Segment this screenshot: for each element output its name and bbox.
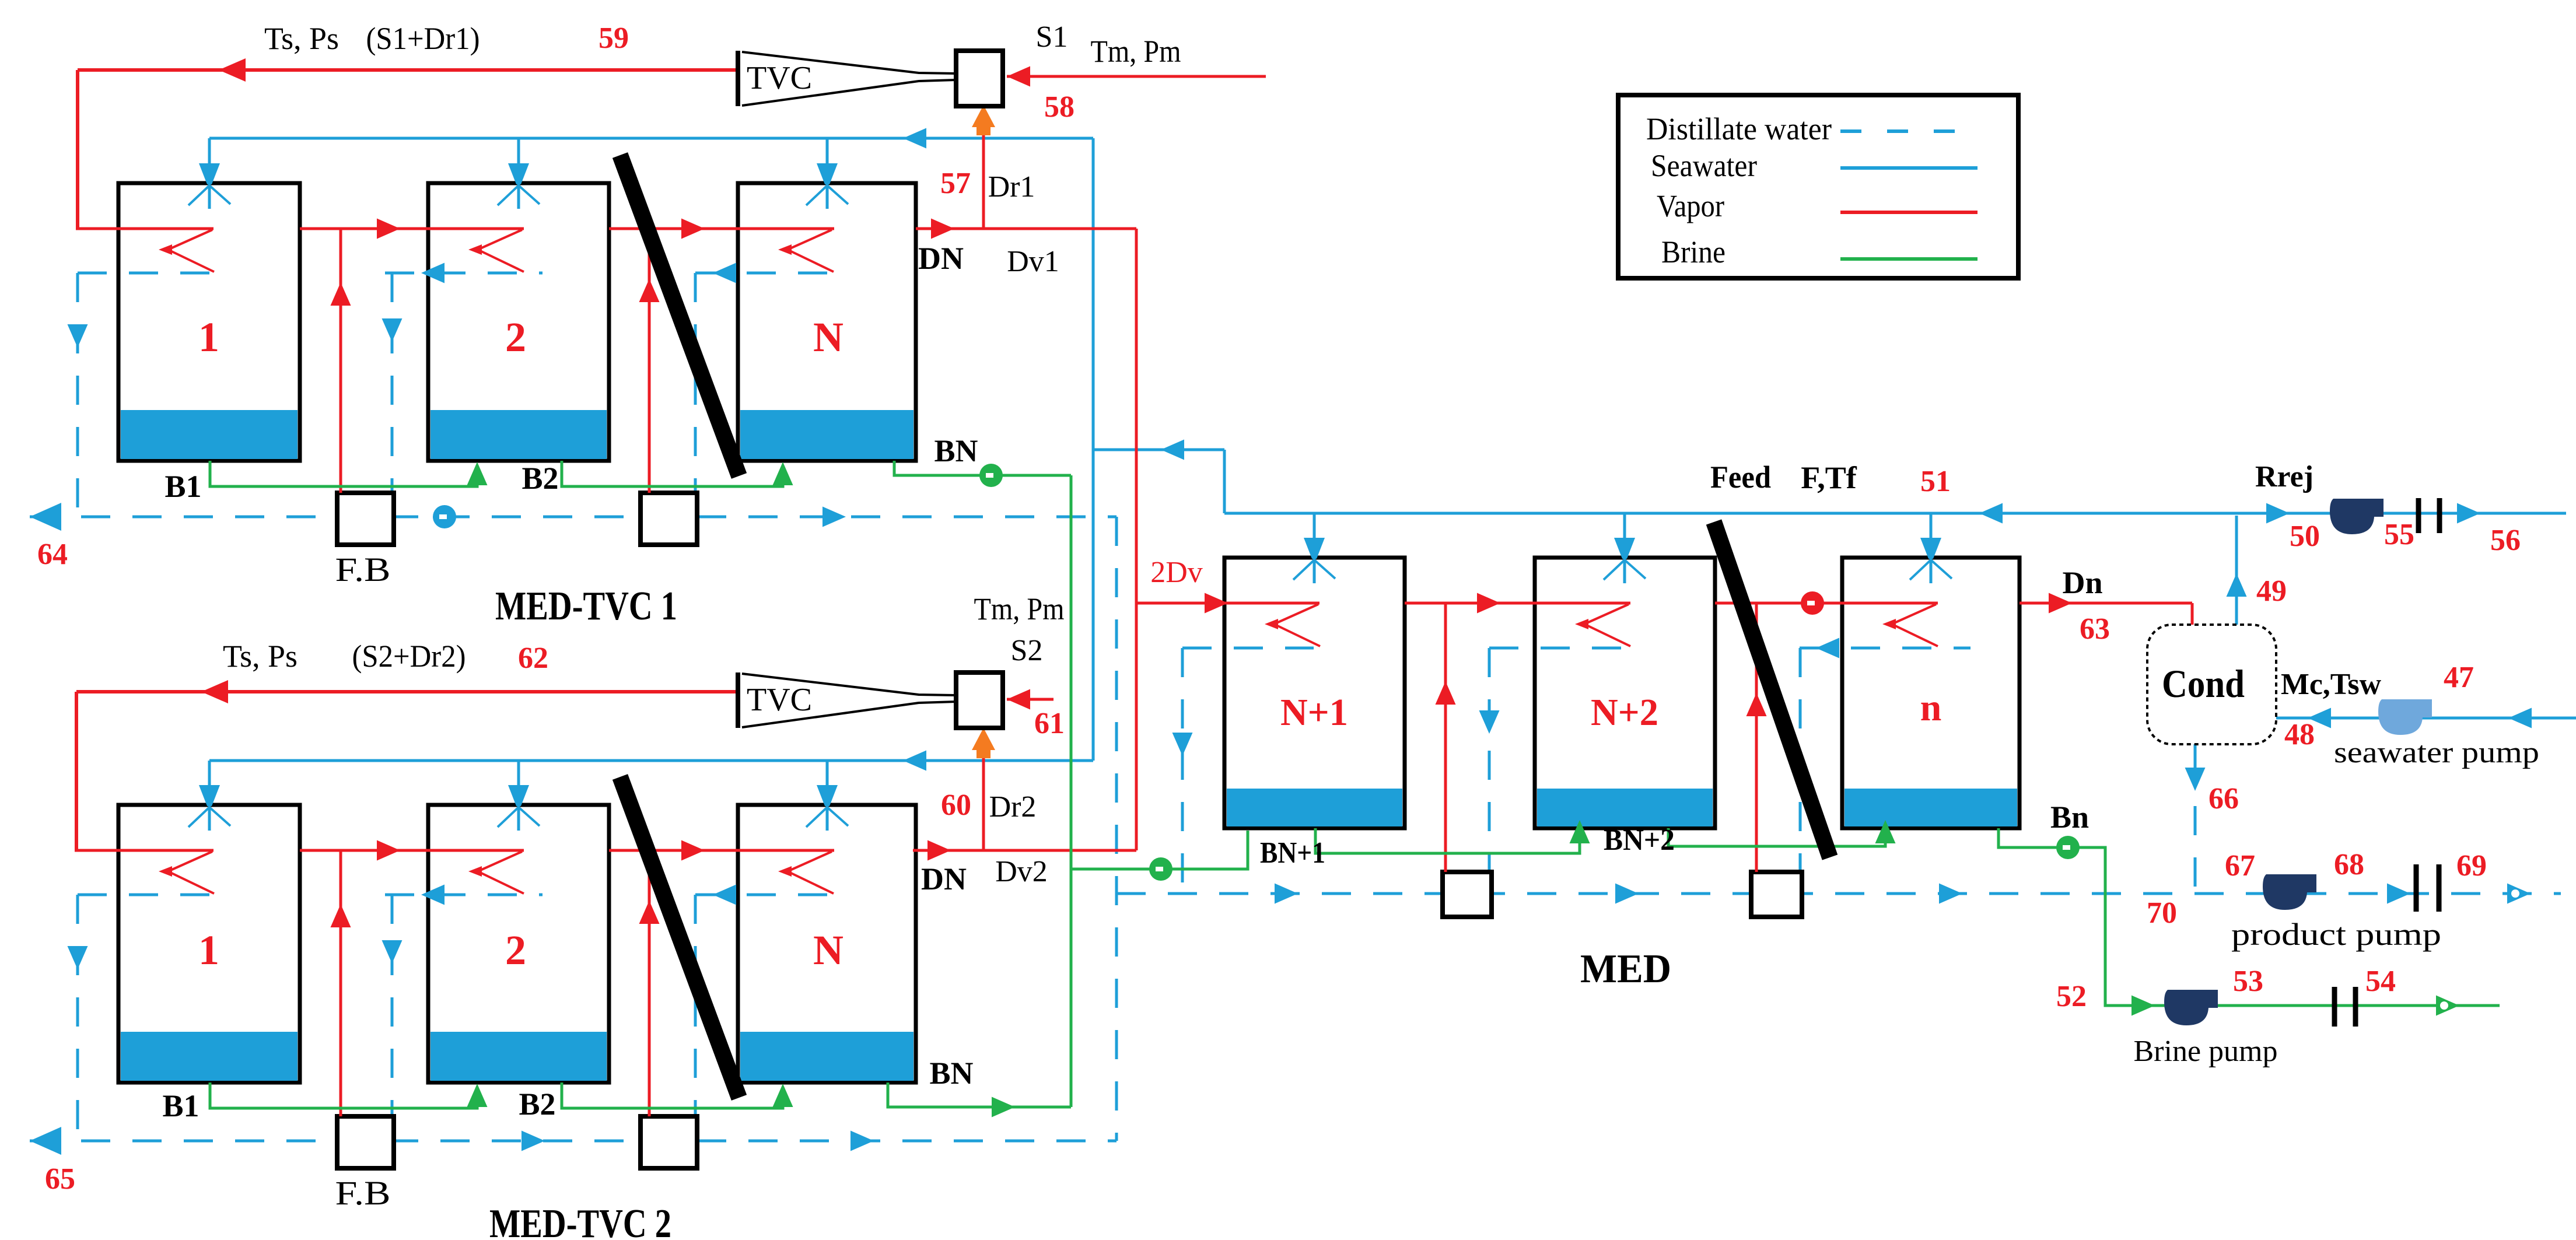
arrow steam supply train2 bbox=[201, 680, 228, 703]
svg-text:Brine pump: Brine pump bbox=[2134, 1035, 2278, 1068]
svg-text:70: 70 bbox=[2147, 896, 2177, 930]
arrow drop B train1 bbox=[382, 318, 402, 342]
arrow vapor DN train2 bbox=[928, 840, 951, 861]
marker distillate circle train1 bbox=[433, 505, 456, 528]
flash box F.B 2 train2 bbox=[640, 1116, 697, 1168]
svg-text:60: 60 bbox=[941, 789, 971, 822]
svg-text:62: 62 bbox=[518, 642, 548, 675]
svg-text:48: 48 bbox=[2284, 718, 2315, 751]
wire seawater header train2 bbox=[209, 759, 1093, 762]
svg-text:67: 67 bbox=[2225, 849, 2255, 882]
svg-text:2: 2 bbox=[505, 927, 526, 973]
arrow drop A train2 bbox=[68, 946, 88, 969]
wire steam downcomer train1 bbox=[76, 70, 79, 229]
svg-text:n: n bbox=[1920, 686, 1942, 729]
wire Dr1 riser bbox=[982, 129, 985, 229]
wire steam downcomer train2 bbox=[75, 692, 78, 850]
arrow distillate box n bbox=[1816, 638, 1839, 658]
svg-text:N+1: N+1 bbox=[1280, 691, 1348, 734]
svg-text:TVC: TVC bbox=[747, 682, 812, 718]
marker brine circle Bn bbox=[2056, 836, 2080, 859]
arrow vapor N+1 N+2 bbox=[1477, 593, 1500, 614]
svg-text:1: 1 bbox=[198, 927, 219, 973]
svg-text:Dr2: Dr2 bbox=[989, 790, 1037, 824]
svg-text:Tm, Pm: Tm, Pm bbox=[1091, 34, 1181, 69]
arrow feed to Rrej bbox=[2266, 503, 2290, 524]
wire distillate header train1 bbox=[30, 516, 1116, 519]
svg-text:56: 56 bbox=[2490, 524, 2521, 557]
wire brine BN train1 bbox=[894, 461, 1071, 475]
arrow motive S1 bbox=[1007, 66, 1030, 87]
arrow brine into effect2 train2 bbox=[467, 1084, 488, 1107]
wire condenser distillate dashed bbox=[2194, 806, 2197, 894]
wire brine BN riser train2 bbox=[1070, 869, 1073, 1107]
wire distillate drop C train1 bbox=[694, 273, 697, 517]
svg-text:Distillate water: Distillate water bbox=[1646, 111, 1832, 146]
wire distillate drop n bbox=[1799, 648, 1802, 894]
arrow drop A train1 bbox=[68, 324, 88, 348]
wire vapor DN out train2 bbox=[913, 849, 1136, 852]
wire 2Dv feed to N+1 bbox=[1136, 602, 1224, 605]
svg-text:Feed: Feed bbox=[1710, 460, 1771, 495]
svg-text:Rrej: Rrej bbox=[2255, 460, 2313, 493]
heater coil effect1 train2 bbox=[168, 852, 212, 871]
wire distillate drop N+1 bbox=[1181, 648, 1184, 894]
spray nozzle train1 bbox=[817, 163, 838, 184]
svg-text:47: 47 bbox=[2444, 661, 2474, 694]
svg-text:Dv1: Dv1 bbox=[1007, 245, 1059, 278]
spray nozzle MED bbox=[1614, 538, 1635, 559]
svg-text:N: N bbox=[813, 314, 843, 360]
svg-text:58: 58 bbox=[1044, 90, 1074, 124]
arrow 49 up bbox=[2227, 573, 2247, 597]
arrow brine into N+2 bbox=[1570, 820, 1590, 843]
spray nozzle MED bbox=[1304, 538, 1325, 559]
arrow distillate MED right bbox=[1939, 884, 1962, 904]
svg-text:63: 63 bbox=[2080, 612, 2110, 646]
wire brine BN+1 bbox=[1315, 824, 1580, 853]
wire brine BN+2 bbox=[1668, 824, 1885, 846]
break line train1 bbox=[620, 155, 739, 476]
wire steam into effect1 train2 bbox=[75, 849, 213, 852]
pump Rrej 50 bbox=[2330, 499, 2383, 534]
arrow distillate box2 train2 bbox=[421, 885, 444, 905]
wire Dn to condenser bbox=[2020, 602, 2192, 605]
flash box MED 2 bbox=[1751, 872, 1802, 917]
arrow vapor 1-2 train1 bbox=[377, 219, 400, 239]
arrow 64 left bbox=[30, 503, 61, 531]
mixing box S1 bbox=[956, 51, 1003, 106]
svg-text:Dv2: Dv2 bbox=[995, 855, 1048, 888]
wire MED flashbox riser 1 bbox=[1444, 603, 1447, 872]
svg-text:Seawater: Seawater bbox=[1651, 148, 1757, 183]
svg-text:TVC: TVC bbox=[747, 60, 812, 96]
heater coil effectN train2 bbox=[738, 849, 834, 852]
valve 54 bbox=[2332, 987, 2337, 1027]
wire spray riser train1 bbox=[826, 138, 829, 168]
svg-text:Tm, Pm: Tm, Pm bbox=[974, 591, 1065, 626]
arrow vapor DN train1 bbox=[931, 219, 954, 239]
svg-text:54: 54 bbox=[2365, 965, 2396, 998]
wire steam supply train2 bbox=[76, 690, 737, 693]
svg-text:product pump: product pump bbox=[2231, 917, 2441, 952]
wire seawater branch bbox=[1093, 449, 1224, 451]
wire vapor N+1 to N+2 bbox=[1405, 602, 1535, 605]
svg-text:57: 57 bbox=[940, 167, 971, 200]
arrow 48 left bbox=[2308, 708, 2331, 728]
svg-text:59: 59 bbox=[598, 22, 629, 55]
wire spray riser MED bbox=[1930, 513, 1933, 542]
wire distillate drop C train2 bbox=[694, 895, 697, 1141]
wire distillate boxN train2 bbox=[695, 894, 835, 896]
heater coil effect2 train2 bbox=[428, 849, 524, 852]
effect box 3 train1 bbox=[738, 183, 916, 461]
effect box 1 train1 bbox=[118, 183, 300, 461]
wire distillate interconnect bbox=[1115, 517, 1118, 1141]
wire flashbox riser A train1 bbox=[339, 229, 342, 493]
wire vapor 1-2 train1 bbox=[300, 227, 428, 230]
wire spray riser train1 bbox=[208, 138, 211, 168]
arrow orange into S2 bbox=[972, 728, 995, 758]
svg-text:F.B: F.B bbox=[335, 1174, 391, 1212]
svg-text:Mc,Tsw: Mc,Tsw bbox=[2281, 668, 2381, 701]
arrow distillate header right train1 bbox=[822, 507, 846, 527]
wire brine B1 train1 bbox=[210, 461, 477, 486]
wire MED flashbox riser 2 bbox=[1755, 603, 1758, 872]
effect box 2 train1 bbox=[428, 183, 609, 461]
svg-text:B1: B1 bbox=[162, 1088, 199, 1123]
wire spray riser MED bbox=[1313, 513, 1316, 542]
svg-text:55: 55 bbox=[2384, 518, 2414, 551]
arrow vapor 2-N train2 bbox=[681, 840, 705, 861]
arrow vapor 1-2 train2 bbox=[377, 840, 400, 861]
flash box MED 1 bbox=[1443, 872, 1492, 917]
wire seawater header train1 bbox=[209, 137, 1093, 140]
svg-text:51: 51 bbox=[1920, 465, 1951, 498]
svg-text:DN: DN bbox=[921, 861, 967, 896]
svg-text:F,Tf: F,Tf bbox=[1801, 460, 1857, 495]
wire motive steam S1 bbox=[1007, 75, 1266, 78]
marker brine circle train1 bbox=[979, 464, 1003, 487]
wire spray riser train2 bbox=[826, 761, 829, 790]
pump product bbox=[2263, 874, 2316, 910]
wire brine BN train2 bbox=[888, 1083, 1071, 1107]
wire brine Bn out bbox=[1999, 828, 2500, 1006]
spray nozzle MED bbox=[1920, 538, 1941, 559]
break line train2 bbox=[620, 777, 739, 1098]
spray nozzle train1 bbox=[508, 163, 529, 184]
svg-text:65: 65 bbox=[45, 1162, 75, 1196]
svg-text:(S2+Dr2): (S2+Dr2) bbox=[352, 639, 466, 674]
wire distillate box1 train2 bbox=[78, 894, 213, 896]
wire distillate drop A train2 bbox=[76, 895, 79, 1141]
svg-text:Dn: Dn bbox=[2062, 565, 2102, 600]
arrow seawater branch bbox=[1161, 440, 1184, 460]
arrow 2Dv bbox=[1205, 593, 1228, 614]
arrow distillate boxN train1 bbox=[713, 263, 736, 283]
svg-text:MED: MED bbox=[1580, 947, 1671, 992]
wire Dn downcomer 63 bbox=[2191, 603, 2194, 625]
wire combined brine to N+1 bbox=[1071, 831, 1248, 869]
wire flashbox riser B train2 bbox=[648, 850, 651, 1116]
arrow flashbox riser B train2 bbox=[639, 901, 660, 924]
svg-text:2Dv: 2Dv bbox=[1150, 556, 1203, 589]
svg-text:N+2: N+2 bbox=[1591, 691, 1658, 734]
wire distillate box n MED bbox=[1800, 647, 1971, 650]
wire seawater downcomer bbox=[1092, 138, 1095, 761]
svg-text:2: 2 bbox=[505, 314, 526, 360]
wire vapor DN out train1 bbox=[916, 227, 1136, 230]
arrow brine into effectN train2 bbox=[773, 1084, 793, 1107]
marker brine circle combined bbox=[1149, 857, 1172, 881]
wire feed riser bbox=[1223, 450, 1226, 513]
arrow 47 left bbox=[2508, 708, 2532, 728]
arrow vapor 2-N train1 bbox=[681, 219, 705, 239]
wire spray riser train2 bbox=[208, 761, 211, 790]
wire distillate header MED bbox=[1116, 892, 2561, 895]
wire distillate drop A train1 bbox=[76, 273, 79, 517]
wire vapor N+2 to n bbox=[1715, 602, 1842, 605]
arrow flashbox riser B train1 bbox=[639, 279, 660, 302]
svg-text:68: 68 bbox=[2334, 848, 2364, 881]
arrow distillate MED right bbox=[1275, 884, 1298, 904]
heater coil effectN train1 bbox=[738, 227, 834, 230]
arrow seawater train2 bbox=[903, 751, 926, 771]
effect box 1 train2 bbox=[118, 805, 300, 1083]
effect box 3 MED bbox=[1842, 558, 2020, 828]
arrow distillate train2 a bbox=[521, 1131, 545, 1151]
thermo-compressor TVC1 bbox=[736, 51, 740, 106]
arrow orange into S1 bbox=[972, 105, 995, 135]
svg-text:N: N bbox=[813, 927, 843, 973]
svg-text:Vapor: Vapor bbox=[1657, 188, 1724, 223]
arrow brine into effect2 train1 bbox=[467, 462, 488, 485]
arrow 66 down bbox=[2185, 768, 2206, 791]
spray nozzle train2 bbox=[508, 785, 529, 806]
svg-text:Ts, Ps: Ts, Ps bbox=[223, 639, 297, 674]
svg-text:DN: DN bbox=[918, 241, 964, 276]
arrow brine into n bbox=[1875, 820, 1896, 843]
svg-text:S1: S1 bbox=[1036, 20, 1068, 54]
wire brine BN downcomer bbox=[1070, 475, 1073, 869]
arrow brine into effectN train1 bbox=[773, 462, 793, 485]
wire spray riser train1 bbox=[517, 138, 520, 168]
wire vapor 1-2 train2 bbox=[300, 849, 428, 852]
svg-text:B1: B1 bbox=[164, 469, 201, 504]
arrow 69 right bbox=[2387, 884, 2410, 904]
arrow flashbox riser A train1 bbox=[331, 282, 351, 306]
arrow feed 51 bbox=[1979, 503, 2003, 524]
svg-text:BN+1: BN+1 bbox=[1260, 836, 1325, 870]
flash box F.B 1 train2 bbox=[337, 1116, 394, 1168]
wire distillate N+1 MED bbox=[1182, 647, 1314, 650]
svg-text:53: 53 bbox=[2233, 965, 2263, 998]
spray nozzle train2 bbox=[199, 785, 220, 806]
arrow drop N+2 bbox=[1479, 710, 1500, 734]
arrow MED flashbox riser 1 bbox=[1436, 681, 1456, 705]
svg-text:Ts, Ps: Ts, Ps bbox=[264, 21, 339, 56]
svg-text:Cond: Cond bbox=[2162, 661, 2245, 706]
heater coil effect1 train1 bbox=[168, 230, 212, 250]
arrow seawater train1 bbox=[903, 128, 926, 149]
wire steam into effect1 train1 bbox=[76, 227, 213, 230]
svg-text:BN: BN bbox=[929, 1056, 973, 1091]
wire spray riser train2 bbox=[517, 761, 520, 790]
arrow brine BN train2 bbox=[992, 1097, 1015, 1118]
wire distillate header train2 bbox=[30, 1140, 1116, 1143]
arrow steam supply train1 bbox=[219, 58, 246, 82]
pump brine bbox=[2164, 990, 2218, 1025]
arrow flashbox riser A train2 bbox=[331, 904, 351, 927]
svg-text:52: 52 bbox=[2056, 980, 2087, 1013]
wire condenser seawater out bbox=[2276, 717, 2576, 720]
spray nozzle train2 bbox=[817, 785, 838, 806]
svg-text:61: 61 bbox=[1034, 707, 1065, 740]
svg-text:Brine: Brine bbox=[1661, 234, 1725, 269]
arrow brine 54 bbox=[2436, 996, 2459, 1016]
svg-text:49: 49 bbox=[2256, 575, 2287, 608]
arrow MED flashbox riser 2 bbox=[1746, 693, 1767, 716]
wire distillate drop B train2 bbox=[391, 895, 394, 1141]
wire vapor crossover bbox=[1135, 229, 1138, 850]
arrow motive S2 bbox=[1007, 689, 1030, 710]
svg-text:BN+2: BN+2 bbox=[1604, 824, 1675, 857]
legend box bbox=[1618, 95, 2018, 278]
svg-text:Dr1: Dr1 bbox=[988, 170, 1035, 204]
effect box 2 train2 bbox=[428, 805, 609, 1083]
wire spray riser MED bbox=[1623, 513, 1626, 542]
wire feed header MED bbox=[1224, 512, 2566, 515]
flash box F.B 2 train1 bbox=[640, 493, 697, 545]
spray nozzle train1 bbox=[199, 163, 220, 184]
wire motive steam S2 bbox=[1007, 698, 1053, 701]
wire distillate box2 train2 bbox=[385, 894, 542, 896]
svg-text:Bn: Bn bbox=[2050, 800, 2089, 835]
effect box 2 MED bbox=[1535, 558, 1715, 828]
effect box 1 MED bbox=[1224, 558, 1405, 828]
wire condenser outlet 49 bbox=[2235, 516, 2238, 625]
flash box F.B 1 train1 bbox=[337, 493, 394, 545]
wire condenser distillate stub bbox=[2194, 744, 2197, 768]
arrow after valve 55 bbox=[2457, 503, 2480, 524]
pump seawater bbox=[2378, 699, 2432, 735]
mixing box S2 bbox=[956, 672, 1003, 728]
svg-text:1: 1 bbox=[198, 314, 219, 360]
arrow distillate train2 b bbox=[850, 1131, 874, 1151]
wire distillate box2 train1 bbox=[385, 272, 542, 275]
wire flashbox riser A train2 bbox=[339, 850, 342, 1116]
thermo-compressor TVC2 bbox=[736, 672, 740, 728]
svg-text:69: 69 bbox=[2456, 849, 2487, 882]
arrow drop B train2 bbox=[382, 940, 402, 964]
svg-text:(S1+Dr1): (S1+Dr1) bbox=[366, 21, 480, 56]
svg-text:B2: B2 bbox=[521, 461, 558, 496]
heater coil n bbox=[1842, 602, 1938, 605]
wire flashbox riser B train1 bbox=[648, 229, 651, 493]
wire steam supply train1 bbox=[78, 68, 737, 72]
valve 69 bbox=[2414, 864, 2419, 912]
wire brine B2 train2 bbox=[562, 1083, 783, 1108]
wire brine B2 train1 bbox=[562, 461, 783, 486]
wire distillate N+2 MED bbox=[1489, 647, 1627, 650]
arrow distillate end bbox=[2507, 884, 2530, 904]
svg-text:F.B: F.B bbox=[335, 551, 391, 589]
arrow distillate boxN train2 bbox=[713, 885, 736, 905]
svg-text:B2: B2 bbox=[519, 1087, 555, 1122]
arrow distillate box2 train1 bbox=[421, 263, 444, 283]
svg-text:seawater pump: seawater pump bbox=[2334, 736, 2539, 769]
arrow drop N+1 bbox=[1172, 733, 1193, 756]
wire distillate drop B train1 bbox=[391, 273, 394, 517]
svg-text:64: 64 bbox=[37, 538, 68, 571]
arrow brine 52 bbox=[2131, 996, 2155, 1016]
condenser Cond bbox=[2147, 625, 2276, 744]
wire distillate drop N+2 bbox=[1488, 648, 1491, 894]
heater coil effect2 train1 bbox=[428, 227, 524, 230]
heater coil N+2 bbox=[1535, 602, 1630, 605]
marker vapor circle bbox=[1801, 591, 1824, 615]
svg-text:MED-TVC 1: MED-TVC 1 bbox=[495, 584, 677, 629]
svg-text:50: 50 bbox=[2290, 520, 2320, 553]
wire brine B1 train2 bbox=[210, 1083, 477, 1108]
svg-text:BN: BN bbox=[934, 433, 978, 468]
arrow Dn bbox=[2049, 593, 2072, 614]
heater coil N+1 bbox=[1224, 602, 1319, 605]
svg-text:S2: S2 bbox=[1011, 634, 1043, 667]
break line MED bbox=[1714, 522, 1830, 857]
wire vapor 2-N train1 bbox=[609, 227, 738, 230]
arrow distillate MED right bbox=[1615, 884, 1639, 904]
valve 55 bbox=[2416, 498, 2421, 533]
wire distillate boxN train1 bbox=[695, 272, 835, 275]
svg-text:MED-TVC 2: MED-TVC 2 bbox=[489, 1202, 671, 1240]
wire Dr2 riser bbox=[982, 752, 985, 850]
svg-text:66: 66 bbox=[2208, 782, 2239, 815]
wire vapor 2-N train2 bbox=[609, 849, 738, 852]
wire distillate box1 train1 bbox=[78, 272, 213, 275]
arrow 65 left bbox=[30, 1127, 61, 1155]
effect box 3 train2 bbox=[738, 805, 916, 1083]
